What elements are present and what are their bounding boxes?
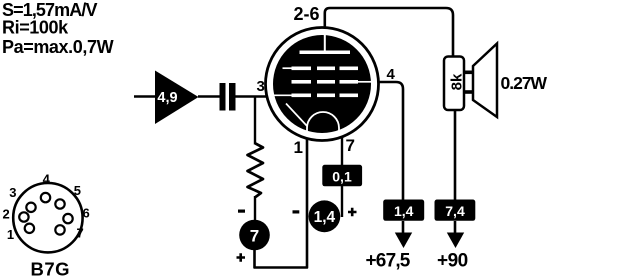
- transformer T1 8k: [444, 57, 464, 111]
- wire transformer to 7,4 box: [454, 110, 457, 200]
- svg-text:2-6: 2-6: [294, 4, 320, 24]
- wire box to arrow (left): [402, 221, 405, 234]
- wire capacitor to grid pin 3: [236, 95, 274, 98]
- socket pin 1: [25, 224, 34, 233]
- filament: [307, 112, 339, 131]
- wire input left: [134, 95, 156, 98]
- grid g3 row: [292, 67, 312, 71]
- svg-text:7: 7: [77, 225, 84, 240]
- arrow +90: [447, 233, 464, 249]
- svg-text:7,4: 7,4: [445, 203, 465, 219]
- socket pin 5: [55, 199, 64, 208]
- svg-text:B7G: B7G: [31, 259, 71, 279]
- svg-text:7: 7: [346, 136, 355, 155]
- svg-text:3: 3: [257, 78, 265, 95]
- socket pin 7: [55, 225, 64, 234]
- wire resistor to bias battery: [254, 196, 256, 221]
- grid g1 row: [292, 94, 312, 98]
- anode bar: [300, 51, 351, 55]
- amplifier input triangle 4,9: [155, 71, 199, 125]
- svg-text:+67,5: +67,5: [366, 251, 411, 272]
- speaker LS1 cone: [473, 44, 497, 118]
- socket pin 2: [19, 212, 28, 221]
- socket pin 6: [63, 214, 72, 223]
- tube inner disc: [273, 35, 371, 133]
- resistor R1 (grid leak): [248, 144, 264, 198]
- wire box to filament battery: [341, 186, 343, 217]
- wire screen grid pin 4: [366, 82, 403, 200]
- wire anode top rail 2-6 to transformer: [325, 8, 453, 57]
- battery B1 7V: [239, 220, 270, 251]
- minus sign (filament battery): [293, 210, 300, 213]
- svg-text:8k: 8k: [449, 73, 466, 90]
- wire box to arrow (right): [454, 221, 457, 234]
- svg-text:0.27W: 0.27W: [501, 73, 548, 93]
- wire pin 7 upper: [341, 125, 343, 166]
- wire triangle to capacitor: [198, 95, 220, 98]
- svg-text:2: 2: [3, 206, 10, 221]
- socket B7G outline: [13, 183, 82, 252]
- svg-text:5: 5: [74, 183, 81, 198]
- minus sign (bias battery): [238, 210, 245, 213]
- anode lead: [324, 33, 326, 52]
- tube V1 envelope: [266, 28, 379, 141]
- svg-text:6: 6: [83, 205, 90, 220]
- svg-text:3: 3: [9, 185, 16, 200]
- svg-text:1,4: 1,4: [394, 203, 414, 219]
- plus sign (filament battery): [348, 208, 357, 217]
- battery B2 1,4V: [309, 200, 341, 232]
- grid g2 row: [292, 80, 312, 84]
- svg-text:4: 4: [43, 172, 51, 187]
- internal g3-filament lead: [286, 104, 307, 127]
- capacitor C2 0,1 box: [322, 165, 362, 187]
- plus sign (bias battery): [237, 253, 246, 262]
- svg-text:Ri=100k: Ri=100k: [2, 18, 69, 38]
- svg-text:Pa=max.0,7W: Pa=max.0,7W: [2, 37, 114, 57]
- svg-text:1,4: 1,4: [314, 209, 336, 226]
- svg-text:7: 7: [250, 227, 259, 246]
- box 1,4 (screen supply): [383, 200, 424, 221]
- speaker coupling bars: [463, 71, 473, 75]
- svg-text:4,9: 4,9: [157, 90, 177, 106]
- svg-text:1: 1: [294, 138, 303, 157]
- socket pin 3: [26, 203, 35, 212]
- arrow +67,5: [395, 233, 412, 249]
- svg-text:0,1: 0,1: [332, 169, 352, 185]
- svg-text:1: 1: [7, 227, 14, 242]
- box 7,4 (anode supply): [435, 200, 476, 221]
- wire battery bottom rail to pin 1: [255, 125, 308, 268]
- svg-text:4: 4: [387, 66, 396, 83]
- wire junction drop to resistor: [254, 97, 256, 145]
- svg-text:+90: +90: [437, 251, 468, 272]
- socket pin 4: [41, 193, 50, 202]
- capacitor C1: [220, 83, 226, 111]
